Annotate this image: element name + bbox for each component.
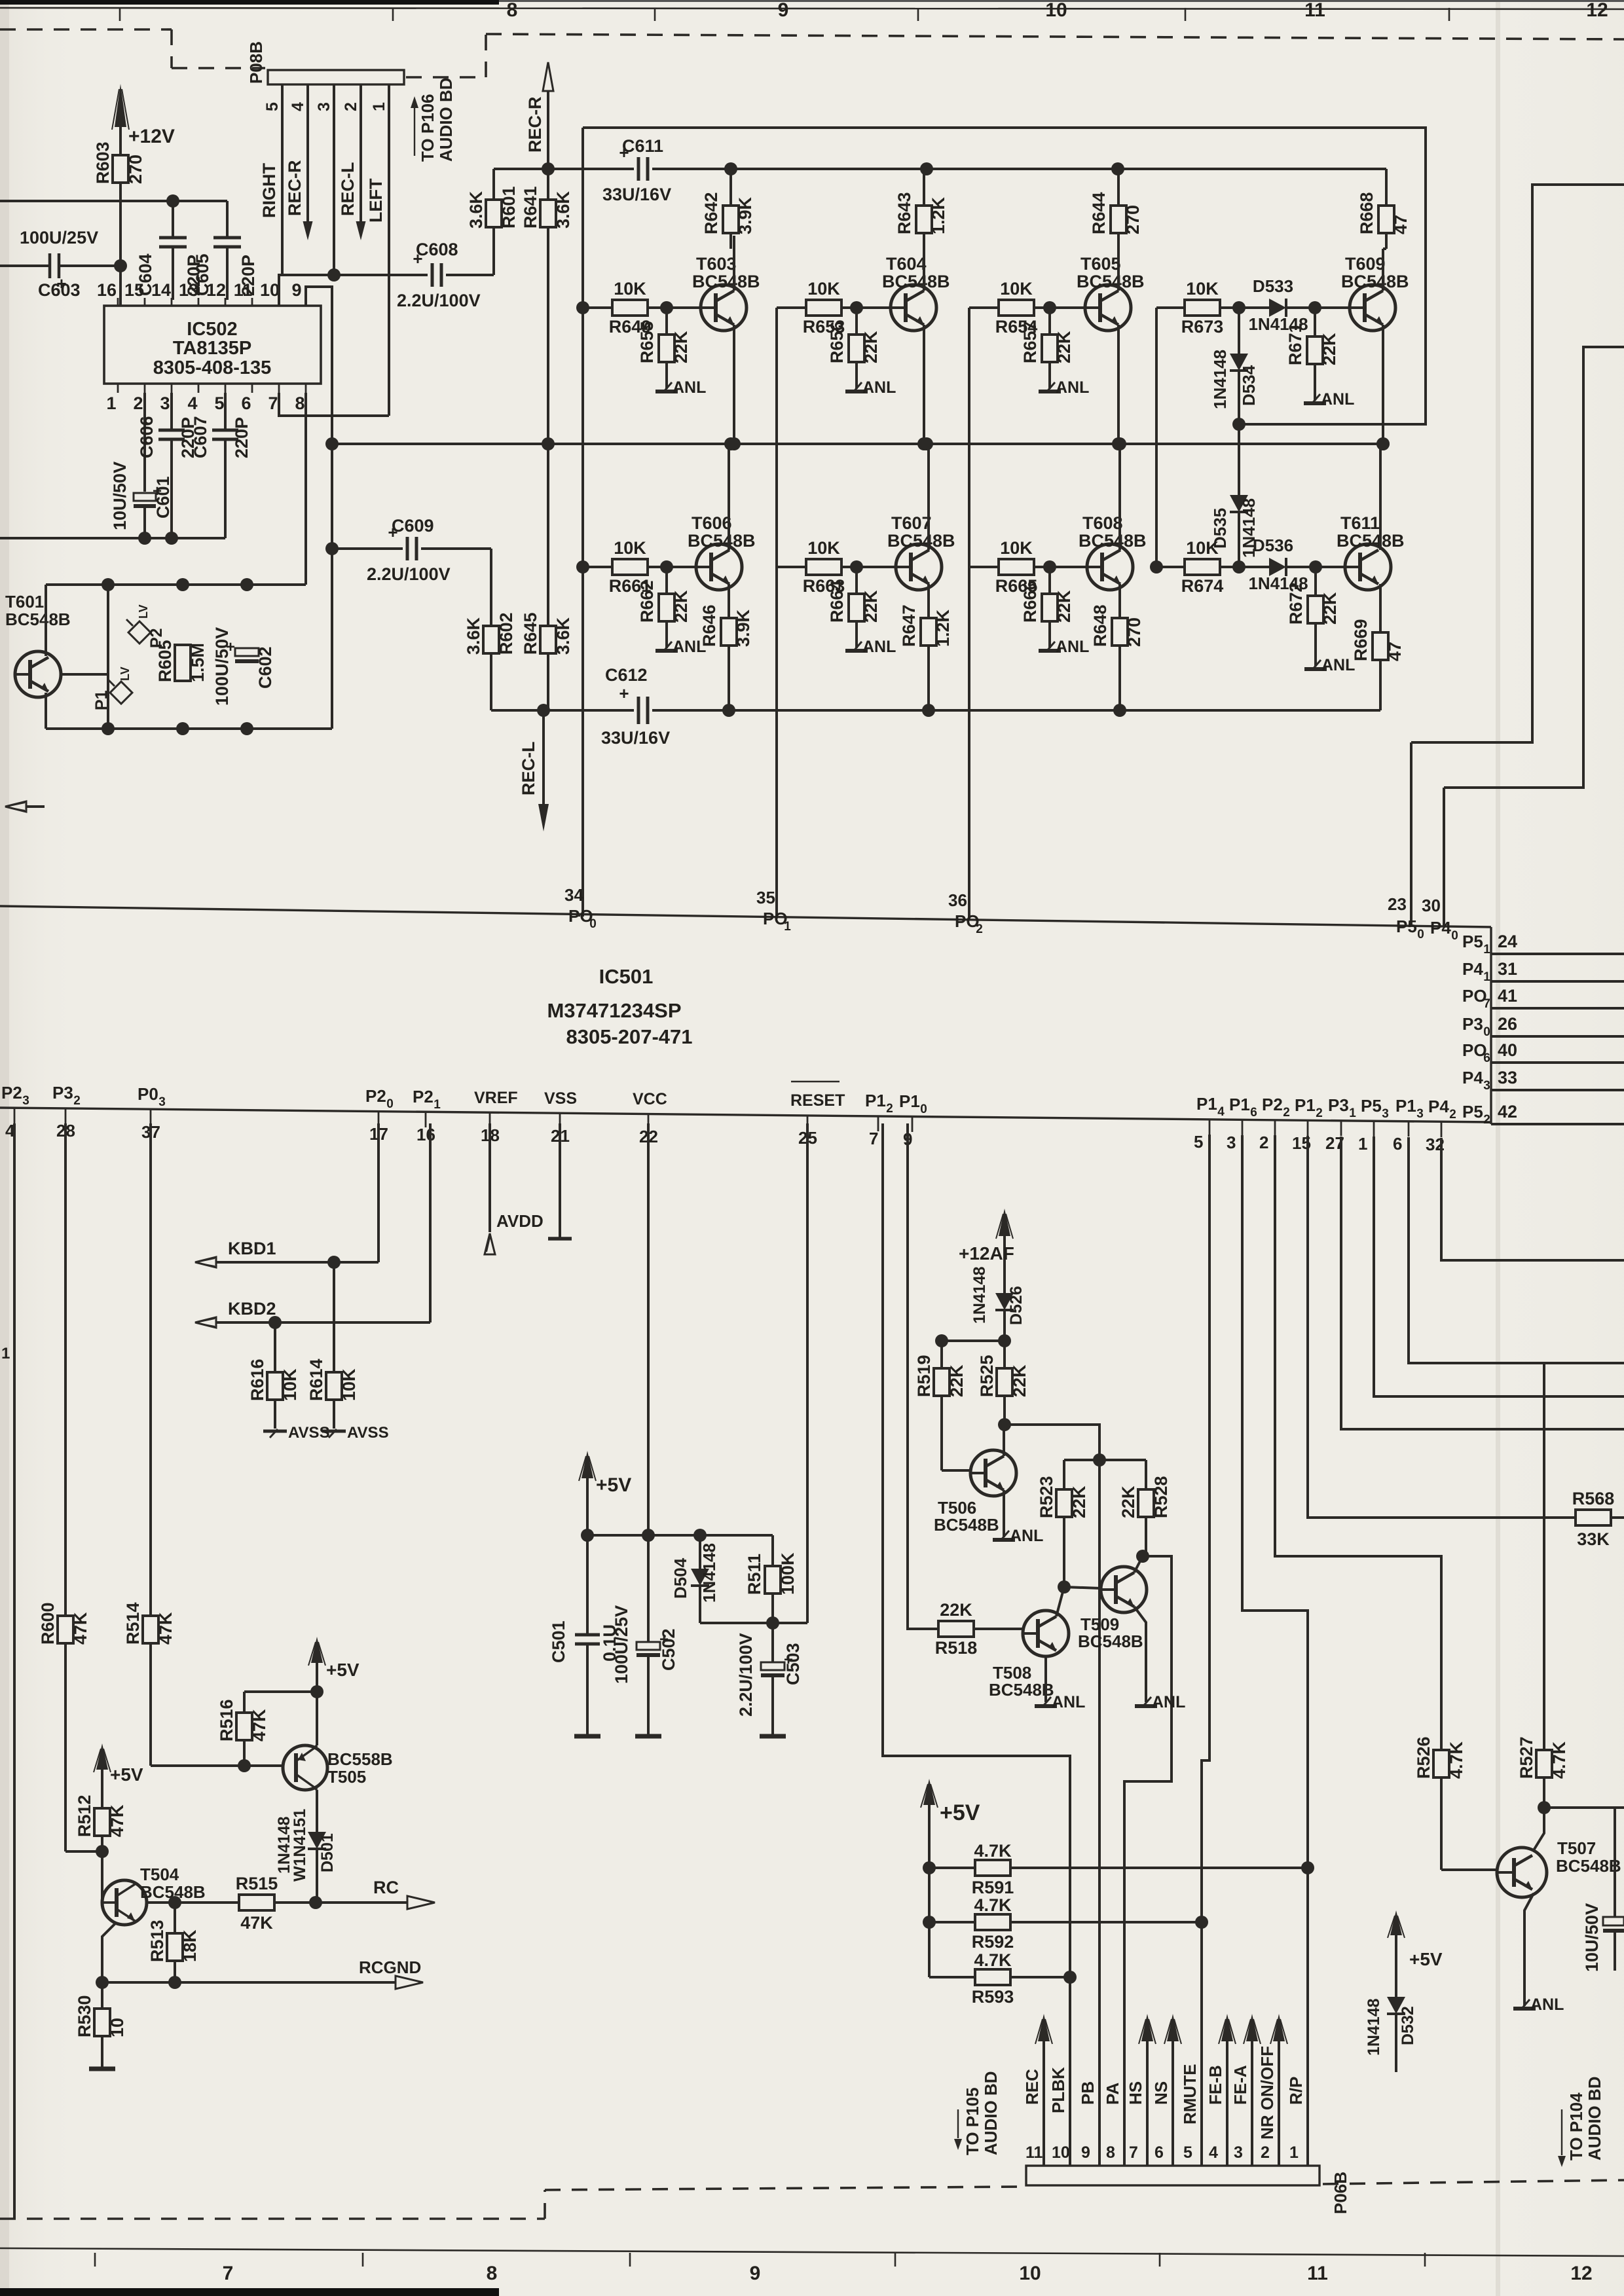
svg-text:6: 6 xyxy=(1483,1051,1490,1065)
svg-text:C502: C502 xyxy=(659,1628,678,1671)
svg-text:11: 11 xyxy=(234,280,253,300)
dashed border bottom-left xyxy=(0,2187,1022,2219)
transistor T606 xyxy=(688,513,756,590)
svg-text:+5V: +5V xyxy=(940,1800,980,1825)
svg-text:R673: R673 xyxy=(1181,317,1224,337)
resistor R644 270 xyxy=(1089,169,1143,249)
wire pin2 P2_2 to R526 xyxy=(1275,1135,1441,1750)
svg-text:TO P106: TO P106 xyxy=(418,94,437,162)
svg-text:0: 0 xyxy=(386,1097,394,1111)
svg-text:R668: R668 xyxy=(1357,192,1376,234)
wire T608 collector xyxy=(1118,444,1121,550)
svg-text:T504: T504 xyxy=(140,1865,179,1884)
svg-text:R/P: R/P xyxy=(1286,2077,1306,2105)
wire T506 base xyxy=(942,1469,972,1472)
svg-text:P2: P2 xyxy=(365,1086,386,1106)
resistor R663 10K xyxy=(777,538,857,596)
wire pin15 P1_2 R568 xyxy=(1308,1136,1576,1518)
svg-text:TO P104: TO P104 xyxy=(1566,2092,1586,2160)
test point P1 xyxy=(92,666,132,710)
svg-text:R646: R646 xyxy=(699,604,719,647)
svg-text:BC548B: BC548B xyxy=(1337,531,1405,551)
node REC-R/rail xyxy=(542,162,555,175)
wire pin27 P3_1 xyxy=(1341,1137,1624,1429)
svg-text:ANL: ANL xyxy=(673,378,706,397)
svg-text:47: 47 xyxy=(1391,215,1411,234)
IC501 pin 7 P12 xyxy=(865,1091,893,1148)
svg-text:VCC: VCC xyxy=(633,1090,667,1108)
net NR ON/OFF to P06B pin 2 xyxy=(1257,2014,1287,2166)
svg-text:T608: T608 xyxy=(1082,513,1123,533)
node R593 PLBK xyxy=(1063,1971,1077,1984)
+12AF supply xyxy=(959,1209,1014,1293)
svg-text:R516: R516 xyxy=(217,1699,236,1741)
svg-text:8: 8 xyxy=(1106,2143,1115,2162)
capacitor C606 xyxy=(137,393,198,538)
svg-text:P0: P0 xyxy=(138,1084,158,1104)
svg-text:100K: 100K xyxy=(778,1552,798,1595)
wire rail 1113 xyxy=(46,722,332,735)
resistor R672 22K xyxy=(1286,567,1340,666)
net PLBK to P06B pin 10 xyxy=(1048,2067,1070,2166)
IC502 bottom pins xyxy=(106,384,306,413)
svg-text:R514: R514 xyxy=(123,1602,143,1645)
IC502 top pins xyxy=(97,280,306,306)
svg-text:3.6K: 3.6K xyxy=(464,617,483,655)
svg-text:R666: R666 xyxy=(1020,580,1040,623)
svg-text:M37471234SP: M37471234SP xyxy=(547,999,681,1022)
svg-text:1: 1 xyxy=(784,920,791,934)
svg-text:9: 9 xyxy=(291,280,301,300)
resistor R519 22K xyxy=(914,1341,967,1470)
svg-text:40: 40 xyxy=(1498,1040,1517,1060)
node T608 base xyxy=(1043,560,1087,574)
svg-text:7: 7 xyxy=(223,2263,234,2284)
svg-text:P3: P3 xyxy=(52,1083,73,1102)
ground C503 xyxy=(760,1734,786,1739)
TO P105 arrow xyxy=(954,2071,1001,2155)
svg-text:47K: 47K xyxy=(71,1612,90,1645)
svg-text:R519: R519 xyxy=(914,1355,934,1397)
svg-text:ANL: ANL xyxy=(1056,378,1089,397)
svg-text:D534: D534 xyxy=(1239,365,1259,406)
capacitor C502 xyxy=(612,1535,678,1736)
P08B pin4 REC-R xyxy=(285,84,313,240)
svg-text:1: 1 xyxy=(1358,1134,1367,1154)
svg-text:C606: C606 xyxy=(137,416,157,458)
+5V supply R512 xyxy=(94,1743,143,1808)
resistor R671 22K xyxy=(1285,308,1339,401)
svg-text:P5: P5 xyxy=(1361,1096,1382,1116)
transistor T608 xyxy=(1079,513,1147,590)
ground ANL T507 xyxy=(1513,1995,1564,2014)
svg-text:2: 2 xyxy=(1483,1113,1490,1127)
wire 2230 rail xyxy=(1064,1459,1146,1461)
svg-text:AVSS: AVSS xyxy=(347,1424,389,1442)
wire T504 collector xyxy=(147,1901,175,1904)
svg-text:REC-R: REC-R xyxy=(525,97,545,153)
svg-text:1: 1 xyxy=(1483,943,1490,957)
svg-text:P1: P1 xyxy=(1295,1095,1316,1115)
IC501 pin 23 P5_0 xyxy=(1388,742,1424,941)
svg-text:2: 2 xyxy=(133,393,143,413)
svg-text:10U/50V: 10U/50V xyxy=(1582,1903,1602,1972)
transistor T509 xyxy=(1078,1567,1147,1651)
net RCGND xyxy=(96,1958,423,1989)
node reset RC xyxy=(700,1616,779,1630)
resistor R592 4.7K xyxy=(923,1895,1202,1952)
wire T601 base xyxy=(61,673,108,676)
svg-text:24: 24 xyxy=(1498,932,1517,951)
IC501 pin 33 P43 xyxy=(1462,1068,1624,1093)
svg-text:8: 8 xyxy=(295,393,304,413)
svg-text:R614: R614 xyxy=(306,1358,326,1401)
transistor T607 xyxy=(887,513,955,590)
svg-text:C611: C611 xyxy=(622,136,663,156)
svg-text:R518: R518 xyxy=(935,1638,978,1658)
svg-text:R656: R656 xyxy=(827,321,847,363)
svg-text:D532: D532 xyxy=(1399,2006,1417,2045)
svg-text:P1: P1 xyxy=(1196,1094,1217,1114)
IC501 pin 2 P22 xyxy=(1259,1095,1290,1152)
svg-text:R657: R657 xyxy=(1020,321,1040,363)
node mid-rail start xyxy=(325,437,339,450)
wire bias 2048 xyxy=(935,1334,1011,1347)
svg-text:1: 1 xyxy=(106,393,116,413)
capacitor C605 xyxy=(193,201,258,300)
svg-text:10K: 10K xyxy=(280,1368,300,1401)
svg-text:T607: T607 xyxy=(891,513,932,533)
wire T603 collector xyxy=(733,236,735,291)
transistor T601 xyxy=(5,592,71,697)
wire T604 collector xyxy=(923,236,925,291)
svg-text:R592: R592 xyxy=(972,1932,1014,1952)
IC501 pin 1 P53 xyxy=(1358,1096,1389,1154)
svg-text:10: 10 xyxy=(1019,2263,1041,2284)
ground ANL R672 xyxy=(1304,656,1355,674)
wire T509 base xyxy=(1064,1587,1101,1588)
net NS to P06B pin 6 xyxy=(1151,2014,1181,2166)
svg-text:7: 7 xyxy=(268,393,278,413)
resistor R527 4.7K xyxy=(1517,1363,1569,1808)
svg-text:100U/25V: 100U/25V xyxy=(20,228,98,247)
svg-text:10K: 10K xyxy=(1000,279,1033,299)
IC501 pin 36 P0_2 xyxy=(948,890,983,936)
svg-text:P08B: P08B xyxy=(246,41,266,84)
resistor R647 1.2K xyxy=(899,584,953,710)
svg-text:12: 12 xyxy=(1570,2263,1592,2284)
svg-text:10K: 10K xyxy=(614,538,646,558)
ground ANL R664 xyxy=(845,638,896,656)
svg-text:BC548B: BC548B xyxy=(887,531,955,551)
wire T609 emitter xyxy=(1376,325,1390,450)
svg-text:34: 34 xyxy=(564,885,583,905)
svg-text:22K: 22K xyxy=(1069,1485,1089,1518)
node rail258 R643 xyxy=(920,162,933,175)
svg-text:P06B: P06B xyxy=(1331,2172,1350,2214)
svg-text:270: 270 xyxy=(1123,205,1143,234)
svg-text:30: 30 xyxy=(1422,896,1441,915)
svg-text:10K: 10K xyxy=(1000,538,1033,558)
IC501 pin 26 P30 xyxy=(1462,1014,1624,1039)
wire R603 to pin16 xyxy=(119,201,122,306)
wire RESET xyxy=(773,1123,807,1623)
svg-text:R603: R603 xyxy=(93,141,113,184)
svg-text:10: 10 xyxy=(1052,2143,1070,2162)
resistor R666 22K xyxy=(1020,567,1074,648)
svg-text:P5: P5 xyxy=(1396,917,1417,936)
node T505 base xyxy=(238,1759,251,1772)
svg-text:10: 10 xyxy=(260,280,280,300)
svg-text:33U/16V: 33U/16V xyxy=(601,728,670,748)
svg-text:8: 8 xyxy=(507,0,518,21)
svg-text:18K: 18K xyxy=(180,1929,200,1962)
svg-text:3: 3 xyxy=(1234,2143,1243,2162)
IC501 pin 42 P52 xyxy=(1462,1102,1624,1127)
dashed border bottom-right xyxy=(1323,2180,1624,2184)
bottom ruler xyxy=(0,2248,1624,2284)
+5V supply R591 xyxy=(921,1779,980,1977)
svg-text:11: 11 xyxy=(1307,2263,1328,2284)
wire T509 to PA xyxy=(1124,1556,1172,2166)
svg-text:1.2K: 1.2K xyxy=(929,196,948,234)
svg-text:ANL: ANL xyxy=(862,638,896,656)
net AVDD xyxy=(485,1123,544,1254)
svg-text:P4: P4 xyxy=(1428,1097,1449,1116)
svg-text:NR ON/OFF: NR ON/OFF xyxy=(1257,2046,1277,2140)
svg-text:2: 2 xyxy=(73,1094,81,1108)
svg-text:3.9K: 3.9K xyxy=(735,196,755,234)
svg-text:R664: R664 xyxy=(827,580,847,623)
svg-text:5: 5 xyxy=(1194,1132,1203,1152)
svg-text:FE-A: FE-A xyxy=(1230,2065,1250,2105)
svg-text:ANL: ANL xyxy=(1056,638,1089,656)
wire T506 emitter xyxy=(1003,1490,1005,1537)
svg-text:4.7K: 4.7K xyxy=(1447,1741,1466,1779)
+12V supply xyxy=(112,84,175,155)
wire T605 emitter xyxy=(1112,325,1125,450)
svg-text:4: 4 xyxy=(1217,1105,1225,1119)
svg-text:BC548B: BC548B xyxy=(934,1515,999,1535)
svg-text:16: 16 xyxy=(416,1125,435,1144)
resistor R616 10K xyxy=(248,1322,300,1429)
svg-text:R642: R642 xyxy=(701,192,721,234)
svg-text:4.7K: 4.7K xyxy=(974,1841,1012,1861)
svg-text:R671: R671 xyxy=(1285,323,1305,365)
capacitor C611 xyxy=(548,136,1386,204)
resistor R664 22K xyxy=(827,567,881,648)
svg-text:R641: R641 xyxy=(521,186,540,228)
svg-text:RCGND: RCGND xyxy=(359,1958,421,1977)
TO P106 arrow xyxy=(411,77,456,162)
node D536 anode xyxy=(1232,560,1246,574)
svg-text:1: 1 xyxy=(370,102,388,111)
svg-text:REC: REC xyxy=(1022,2069,1042,2105)
P08B pin3 xyxy=(315,84,334,275)
node T605 base xyxy=(1043,301,1085,314)
wire T506 coll riser xyxy=(1003,1425,1005,1456)
text M37471234SP xyxy=(547,999,681,1022)
net arrow left xyxy=(5,801,45,812)
wire T603 emitter xyxy=(728,325,741,450)
node pin3/C608 xyxy=(327,268,341,282)
capacitor C608 xyxy=(397,240,494,310)
svg-text:9: 9 xyxy=(750,2263,761,2284)
svg-text:IC501: IC501 xyxy=(599,965,654,988)
ground C502 xyxy=(635,1734,661,1739)
wire T507 collector out xyxy=(1544,1806,1624,1809)
svg-text:ANL: ANL xyxy=(1052,1693,1085,1711)
svg-text:R525: R525 xyxy=(977,1355,997,1397)
svg-text:R593: R593 xyxy=(972,1987,1014,2007)
svg-text:HS: HS xyxy=(1126,2081,1145,2105)
wire T604 emitter xyxy=(917,325,931,450)
svg-text:10K: 10K xyxy=(807,279,840,299)
top ruler xyxy=(0,0,1624,21)
resistor R525 22K xyxy=(977,1341,1029,1425)
wire pin8 rail xyxy=(304,393,307,585)
ground ANL R662 xyxy=(655,638,706,656)
svg-text:RIGHT: RIGHT xyxy=(259,163,279,219)
resistor R530 10 xyxy=(75,1982,127,2069)
svg-text:TA8135P: TA8135P xyxy=(173,338,251,359)
svg-text:10K: 10K xyxy=(1186,538,1219,558)
svg-text:C609: C609 xyxy=(392,516,434,536)
svg-text:1: 1 xyxy=(1483,970,1490,984)
svg-text:P4: P4 xyxy=(1462,1068,1483,1087)
wire T601 collector xyxy=(45,585,47,656)
resistor R614 10K xyxy=(306,1262,359,1429)
resistor R601 xyxy=(466,169,519,275)
dashed border top-left xyxy=(0,29,265,68)
IC501 pin 9 P10 xyxy=(899,1091,927,1149)
svg-text:TO P105: TO P105 xyxy=(963,2087,982,2155)
svg-text:BC548B: BC548B xyxy=(688,531,756,551)
wire T507 coll riser xyxy=(1534,1808,1544,1850)
svg-text:12: 12 xyxy=(206,280,226,300)
svg-text:3.6K: 3.6K xyxy=(466,191,486,228)
wire T607 collector xyxy=(927,444,930,550)
ground ANL R655 xyxy=(655,378,706,397)
wire pin5 P1_4 RMUTE xyxy=(1202,1135,1209,2166)
resistor R662 22K xyxy=(637,567,691,648)
IC501 pin 31 P41 xyxy=(1462,959,1624,984)
resistor R665 10K xyxy=(969,538,1050,596)
node PB tap xyxy=(1093,1453,1106,1467)
svg-text:3: 3 xyxy=(158,1095,166,1109)
resistor R645 xyxy=(521,444,573,710)
transistor T507 xyxy=(1497,1838,1621,1897)
wire T505 base xyxy=(151,1764,283,1766)
node rail258 R644 xyxy=(1111,162,1124,175)
svg-text:22K: 22K xyxy=(671,590,691,623)
resistor R657 22K xyxy=(1020,308,1074,389)
svg-text:26: 26 xyxy=(1498,1014,1517,1034)
svg-text:3: 3 xyxy=(1416,1107,1424,1121)
svg-text:22K: 22K xyxy=(1010,1364,1029,1397)
svg-text:41: 41 xyxy=(1498,986,1517,1006)
resistor R523 22K xyxy=(1037,1460,1089,1587)
IC501 pin 22 VCC xyxy=(633,1090,667,1146)
svg-text:4.7K: 4.7K xyxy=(974,1950,1012,1970)
svg-text:T606: T606 xyxy=(692,513,732,533)
svg-text:P4: P4 xyxy=(1430,918,1451,938)
net HS to P06B pin 7 xyxy=(1126,2014,1156,2166)
svg-text:P5: P5 xyxy=(1462,932,1483,951)
svg-text:REC-L: REC-L xyxy=(519,742,538,796)
+5V supply C501 xyxy=(579,1451,631,1535)
diode D533 xyxy=(1239,276,1315,334)
svg-text:AUDIO BD: AUDIO BD xyxy=(1585,2076,1604,2160)
transistor T504 xyxy=(102,1865,206,1925)
resistor R600 47K xyxy=(38,1602,90,1851)
svg-text:22K: 22K xyxy=(1320,592,1340,625)
resistor R646 3.9K xyxy=(699,584,753,710)
wire pin34 riser xyxy=(578,915,580,917)
svg-text:12: 12 xyxy=(1586,0,1608,21)
svg-text:P1: P1 xyxy=(92,690,111,710)
svg-text:13: 13 xyxy=(179,280,198,300)
svg-text:R515: R515 xyxy=(236,1874,278,1893)
wire pin3 P1_6 RP xyxy=(1242,1135,1308,2166)
svg-text:T609: T609 xyxy=(1345,254,1386,274)
net KBD1 xyxy=(195,1123,378,1269)
resistor R515 47K xyxy=(175,1874,316,1933)
svg-text:BC548B: BC548B xyxy=(1341,272,1409,291)
IC501 top edge xyxy=(0,906,1491,927)
IC501 pin 4 P23 xyxy=(1,1083,29,1140)
svg-text:100U/50V: 100U/50V xyxy=(212,627,232,706)
svg-text:BC558B: BC558B xyxy=(327,1749,393,1769)
ground ANL R657 xyxy=(1039,378,1089,397)
IC501 bottom edge xyxy=(0,1108,1491,1122)
svg-text:D526: D526 xyxy=(1007,1286,1025,1325)
svg-text:11: 11 xyxy=(1304,0,1325,21)
node R641/mid-rail xyxy=(542,437,555,450)
svg-text:P5: P5 xyxy=(1462,1102,1483,1121)
node D534 bottom xyxy=(1232,418,1246,431)
svg-text:P3: P3 xyxy=(1328,1095,1349,1115)
svg-text:C601: C601 xyxy=(153,476,173,519)
svg-text:47K: 47K xyxy=(156,1612,175,1645)
ground R530 xyxy=(89,2067,115,2071)
net PB to P06B pin 9 xyxy=(1078,2081,1099,2166)
ground ANL R656 xyxy=(845,378,896,397)
svg-text:R601: R601 xyxy=(499,186,519,228)
connector P08B xyxy=(246,41,404,84)
wire col3 input xyxy=(968,308,970,920)
ground ANL R666 xyxy=(1039,638,1089,656)
svg-text:4.7K: 4.7K xyxy=(974,1895,1012,1915)
svg-text:R605: R605 xyxy=(155,640,175,682)
wire col1 input xyxy=(581,128,584,917)
svg-text:D504: D504 xyxy=(671,1558,690,1599)
svg-text:22K: 22K xyxy=(861,331,881,363)
IC501 pin 5 P14 xyxy=(1194,1094,1225,1152)
IC501 pin 15 P12 xyxy=(1292,1095,1323,1153)
svg-text:BC548B: BC548B xyxy=(1078,1631,1143,1651)
test point P2 xyxy=(126,604,166,648)
svg-text:35: 35 xyxy=(756,888,775,907)
wire pin6 P1_3 xyxy=(1409,1137,1624,1363)
node col1 lower xyxy=(576,560,589,574)
svg-text:C503: C503 xyxy=(783,1643,803,1685)
svg-text:0: 0 xyxy=(1417,928,1424,941)
net KBD2 xyxy=(195,1123,430,1329)
svg-text:AUDIO BD: AUDIO BD xyxy=(981,2071,1001,2155)
svg-text:BC548B: BC548B xyxy=(1556,1856,1621,1876)
svg-text:10U/50V: 10U/50V xyxy=(110,462,130,530)
